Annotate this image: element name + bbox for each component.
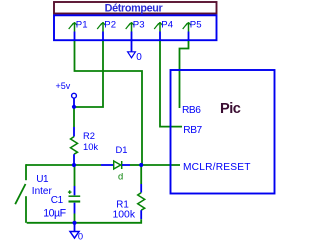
svg-text:RB7: RB7 [183, 125, 202, 136]
junction node D1/R1/MCLR [139, 163, 143, 167]
junction node R2/C1 [72, 163, 76, 167]
Détrompeur body box [54, 15, 217, 40]
svg-text:P2: P2 [104, 20, 116, 31]
svg-text:MCLR/RESET: MCLR/RESET [183, 162, 251, 173]
junction node ground rail [72, 221, 76, 225]
svg-text:P4: P4 [161, 20, 173, 31]
wire node down to C1 [74, 165, 76, 186]
pin P2 arrow [97, 22, 105, 31]
wire D1 to node junction [130, 164, 141, 166]
capacitor C1 [68, 186, 80, 223]
svg-text:C1: C1 [51, 195, 64, 206]
svg-text:RB6: RB6 [182, 105, 201, 116]
svg-text:Pic: Pic [220, 101, 241, 117]
ground at P3 [128, 41, 136, 58]
resistor R2 [71, 127, 78, 164]
resistor R1 [138, 184, 145, 219]
svg-text:Inter: Inter [32, 186, 53, 197]
wire +5v node down to R2 [73, 107, 75, 127]
ground symbol bottom [70, 223, 79, 238]
main node wire (left rail y=165) [26, 164, 101, 166]
diode D1 [101, 161, 130, 169]
pin P5 arrow [183, 22, 191, 31]
wire P1 to node D1-R1 [75, 41, 143, 164]
wire P5 to RB6 [180, 41, 189, 108]
pin P3 arrow [126, 22, 134, 31]
svg-text:d: d [118, 171, 123, 182]
wire node down to R1 [140, 165, 142, 184]
svg-text:P3: P3 [133, 20, 145, 31]
Détrompeur title box [54, 2, 217, 14]
wire P2 to +5v node [75, 41, 103, 107]
svg-text:P5: P5 [190, 20, 202, 31]
+5v supply symbol [56, 81, 77, 107]
svg-text:0: 0 [78, 230, 83, 241]
switch U1 [15, 164, 26, 223]
svg-text:Détrompeur: Détrompeur [105, 3, 164, 15]
svg-text:10µF: 10µF [43, 208, 66, 220]
svg-text:P1: P1 [76, 20, 88, 31]
pin P1 arrow [69, 22, 77, 31]
svg-text:R2: R2 [83, 130, 95, 141]
wire R1 bottom to ground rail [27, 219, 142, 223]
pin P4 arrow [154, 22, 162, 31]
junction node at +5v [72, 105, 76, 109]
svg-text:100k: 100k [113, 210, 136, 221]
Pic box [171, 70, 275, 194]
pin P2 stub [102, 32, 104, 42]
svg-text:10k: 10k [83, 141, 98, 152]
svg-text:+5v: +5v [56, 81, 71, 91]
svg-text:U1: U1 [36, 174, 49, 185]
svg-text:D1: D1 [116, 144, 128, 155]
pin P4 stub [159, 32, 161, 42]
pin P1 stub [74, 32, 76, 42]
wire node to MCLR/RESET [141, 164, 180, 166]
pin P5 stub [188, 32, 190, 42]
wire P4 to RB7 [160, 41, 182, 127]
pin P3 stub [131, 32, 133, 42]
svg-text:0: 0 [136, 52, 142, 63]
